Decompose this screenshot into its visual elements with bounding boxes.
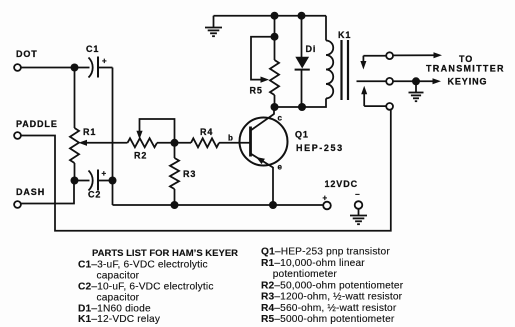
node I (D1 branch on top rail): [298, 12, 306, 20]
svg-text:R4–560-ohm, ½-watt resistor: R4–560-ohm, ½-watt resistor: [261, 303, 397, 314]
svg-text:PADDLE: PADDLE: [16, 119, 58, 129]
resistor R3: [170, 143, 179, 205]
ground (keying line): [409, 81, 424, 101]
wire collector up to node F: [273, 107, 275, 115]
svg-text:K1–12-VDC relay: K1–12-VDC relay: [78, 314, 161, 325]
wire node C down to supply rail: [112, 181, 114, 206]
wire armature to keying arrow: [393, 78, 441, 84]
capacitor C1: [75, 57, 113, 78]
terminal DASH: [14, 187, 45, 208]
ground (top left): [205, 16, 222, 37]
svg-text:capacitor: capacitor: [97, 293, 140, 304]
node C (C2+/rail junction): [109, 177, 117, 185]
transistor Q1: [240, 114, 288, 168]
node B (R1/C2/DASH junction): [71, 177, 79, 185]
terminal PADDLE: [14, 119, 58, 139]
parts list left column: [78, 259, 214, 325]
node K (D1 bottom junction): [298, 103, 306, 111]
svg-text:R5: R5: [250, 86, 263, 96]
svg-text:R3: R3: [183, 169, 196, 179]
svg-text:Q1: Q1: [295, 130, 309, 140]
wire NC contact to transmitter arrow: [393, 52, 442, 58]
node D (R2/R3/R4 junction): [171, 139, 179, 147]
svg-text:KEYING: KEYING: [448, 77, 488, 87]
parts list right column: [261, 247, 404, 326]
ground (supply negative): [350, 209, 367, 224]
wire positive supply rail: [113, 204, 323, 206]
svg-text:−: −: [355, 190, 360, 199]
relay contact NO (bottom): [361, 86, 393, 110]
terminal DOT: [14, 49, 38, 71]
svg-text:12VDC: 12VDC: [325, 179, 359, 189]
svg-text:R1–10,000-ohm linear: R1–10,000-ohm linear: [261, 258, 365, 269]
node A (DOT/C1/R1 junction): [71, 64, 79, 72]
node E (R3 bottom on rail): [171, 201, 179, 209]
svg-text:R5–5000-ohm potentiometer: R5–5000-ohm potentiometer: [261, 314, 395, 325]
svg-text:DASH: DASH: [16, 187, 45, 197]
potentiometer R2: [128, 138, 158, 147]
relay contact NC (top): [360, 52, 393, 69]
wire DASH to node B: [21, 181, 74, 204]
wire C1 right plate down to C2 right plate: [112, 68, 114, 181]
R5 wiper loop and arrow: [251, 37, 275, 83]
svg-text:R4: R4: [200, 127, 213, 137]
potentiometer R1: [70, 68, 79, 181]
potentiometer R5: [270, 16, 279, 107]
svg-text:+: +: [102, 57, 107, 66]
terminal 12VDC -: [355, 190, 363, 209]
svg-text:R1: R1: [83, 127, 96, 137]
svg-text:e: e: [278, 163, 283, 172]
svg-text:R3–1200-ohm, ½-watt resistor: R3–1200-ohm, ½-watt resistor: [261, 292, 403, 303]
wire R2 to node D: [157, 142, 175, 144]
svg-text:b: b: [228, 134, 233, 143]
wire emitter down to rail: [272, 167, 274, 205]
R2 wiper arrow tied to right end (loop): [136, 119, 174, 143]
svg-text:Di: Di: [306, 44, 317, 54]
svg-text:R2–50,000-ohm potentiometer: R2–50,000-ohm potentiometer: [261, 280, 404, 291]
wire top ground rail: [214, 15, 327, 17]
node G (emitter on rail): [269, 201, 277, 209]
wire PADDLE to bottom rail: [21, 110, 391, 231]
svg-text:R2: R2: [134, 151, 147, 161]
node J (R5 wiper tie on branch): [271, 33, 279, 41]
wire DOT to node A: [21, 67, 75, 69]
node H (R5 branch on top rail): [271, 12, 279, 20]
svg-text:C2–10-uF, 6-VDC electrolytic: C2–10-uF, 6-VDC electrolytic: [78, 282, 214, 293]
terminal 12VDC +: [323, 194, 331, 210]
resistor R4: [175, 138, 251, 147]
svg-text:TRANSMITTER: TRANSMITTER: [426, 64, 505, 74]
relay K1 core bars: [342, 40, 349, 100]
svg-text:Q1–HEP-253 pnp transistor: Q1–HEP-253 pnp transistor: [261, 247, 390, 258]
svg-text:DOT: DOT: [16, 49, 38, 59]
svg-text:+: +: [102, 169, 107, 178]
node L (keying ground junction): [412, 77, 420, 85]
diode D1: [295, 16, 310, 107]
svg-text:PARTS LIST FOR HAM’S KEYER: PARTS LIST FOR HAM’S KEYER: [92, 248, 238, 259]
svg-text:potentiometer: potentiometer: [273, 269, 338, 280]
relay K1 coil: [326, 16, 333, 99]
svg-text:D1–1N60 diode: D1–1N60 diode: [78, 303, 151, 314]
svg-text:C1: C1: [86, 44, 99, 54]
relay armature (middle contact): [357, 78, 394, 85]
svg-text:C2: C2: [88, 190, 101, 200]
R1 wiper arrow and wire to R2: [79, 140, 128, 146]
svg-text:+: +: [323, 194, 328, 203]
svg-text:HEP-253: HEP-253: [296, 143, 344, 153]
svg-text:c: c: [278, 114, 283, 123]
capacitor C2: [75, 170, 113, 191]
wire collector rail (R5/D1/K1 bottoms): [275, 98, 327, 107]
svg-text:capacitor: capacitor: [97, 270, 140, 281]
svg-text:C1–3-uF, 6-VDC electrolytic: C1–3-uF, 6-VDC electrolytic: [78, 259, 208, 270]
svg-text:TO: TO: [459, 54, 473, 64]
node F (collector junction): [271, 103, 279, 111]
svg-text:K1: K1: [338, 30, 351, 40]
